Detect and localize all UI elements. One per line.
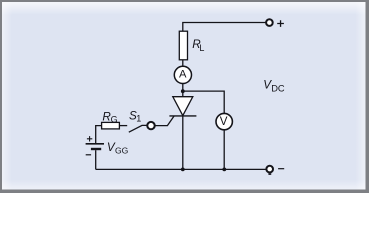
svg-text:A: A (179, 69, 187, 81)
svg-text:V: V (220, 115, 228, 128)
wire battery bottom (95, 150, 97, 169)
battery minus sign (86, 154, 91, 156)
wire RG right stub (119, 125, 127, 127)
wire voltmeter bottom (223, 130, 225, 169)
resistor RG (102, 122, 120, 128)
svg-text:1: 1 (136, 113, 141, 123)
inner edge highlight bottom (2, 180, 366, 190)
svg-text:L: L (199, 43, 204, 53)
wire RL bottom to ammeter (182, 60, 184, 67)
label plus (277, 20, 284, 27)
thyristor cathode bar (169, 115, 196, 117)
wire node to voltmeter branch (183, 91, 224, 113)
svg-text:DC: DC (271, 84, 285, 94)
wire top (RL to + terminal) (183, 23, 267, 32)
wire thyristor cathode to bottom rail (182, 116, 184, 169)
wire ammeter to thyristor anode (182, 84, 184, 97)
wire bottom rail (96, 168, 267, 170)
label minus (278, 168, 284, 170)
switch S1 contact (147, 122, 154, 129)
node junction voltmeter bottom (222, 168, 226, 172)
inner edge highlight right (356, 2, 366, 190)
terminal minus (266, 166, 273, 173)
ammeter U-A (174, 66, 191, 83)
resistor RL (179, 31, 187, 60)
voltmeter U-V (216, 113, 232, 129)
node junction thyristor bottom (181, 168, 185, 172)
wire RG left to battery (96, 126, 102, 143)
thyristor SCR (173, 97, 193, 116)
inner edge highlight top (2, 2, 366, 15)
node junction above thyristor (181, 89, 185, 93)
svg-text:GG: GG (115, 146, 129, 156)
battery VGG positive plate (86, 143, 104, 145)
svg-text:G: G (111, 115, 118, 125)
wire switch to gate (155, 116, 174, 126)
terminal plus (266, 19, 273, 26)
node stub below minus terminal (268, 173, 271, 175)
battery plus sign (87, 136, 92, 141)
battery VGG negative plate (91, 148, 101, 150)
switch S1 lever (129, 125, 147, 132)
inner edge highlight left (2, 2, 12, 190)
